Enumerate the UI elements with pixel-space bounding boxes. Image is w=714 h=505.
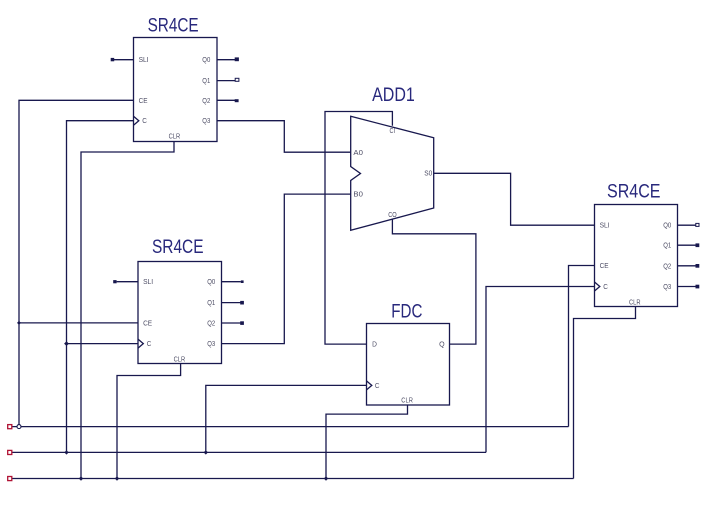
wire ADD1 S0 to right SR4CE SLI <box>434 173 595 225</box>
adder ADD1 symbol outline <box>351 116 434 230</box>
shift register U3 (right SR4CE) box <box>595 205 678 307</box>
U3 Q3 end square <box>696 285 700 289</box>
U3 Q1 output stub <box>678 244 696 246</box>
svg-text:CE: CE <box>139 98 148 105</box>
wire ADD1 CI to FDC D <box>325 112 392 345</box>
U1 Q0 output stub <box>217 59 235 61</box>
wire CLR net: IO3 horizontal run <box>12 478 574 480</box>
svg-text:CLR: CLR <box>401 398 413 405</box>
svg-text:Q1: Q1 <box>663 243 671 250</box>
svg-text:SR4CE: SR4CE <box>607 182 661 203</box>
svg-text:Q3: Q3 <box>663 284 671 291</box>
wire ADD1 CO to FDC Q <box>392 219 476 344</box>
U1 clock chevron <box>134 116 139 125</box>
svg-text:SR4CE: SR4CE <box>152 237 204 258</box>
U2 clock chevron <box>138 339 143 348</box>
svg-text:Q0: Q0 <box>202 57 210 64</box>
I/O terminal marker 3 <box>8 477 12 481</box>
svg-text:Q3: Q3 <box>207 341 215 348</box>
svg-text:CE: CE <box>143 321 152 328</box>
wire Q3 of bottom SR4CE to ADD1 B0 <box>222 194 351 344</box>
U1 Q0 end square (filled) <box>235 57 239 61</box>
svg-text:SLI: SLI <box>600 223 610 230</box>
U2 Q1 end square <box>240 301 244 305</box>
svg-text:C: C <box>142 118 147 125</box>
U2 Q0 output stub <box>222 281 241 283</box>
junction dot at CE-net branch to U2 <box>17 321 21 325</box>
U1 Q1 end square (open) <box>235 78 239 81</box>
svg-text:SLI: SLI <box>139 57 149 64</box>
U2 Q0 end square <box>241 280 244 283</box>
svg-text:D: D <box>372 342 377 349</box>
U3 Q0 end square (open) <box>696 223 699 226</box>
junction diamond at C-net branch to U2 <box>64 341 69 346</box>
U3 Q2 end square <box>696 264 700 268</box>
U2 SLI unconnected-end square <box>113 280 116 283</box>
junction dot C-net at IO2 wire x=205.8 <box>204 450 208 454</box>
U2 Q2 output stub <box>222 322 241 324</box>
shift register U1 (top-left SR4CE) box <box>134 38 218 142</box>
wire CLR net: riser to bottom SR4CE CLR <box>117 364 181 479</box>
U2 Q1 output stub <box>222 302 241 304</box>
wire C clock net: IO2 horizontal run <box>12 451 486 453</box>
svg-text:Q: Q <box>439 342 445 349</box>
U3 clock chevron <box>595 282 600 291</box>
svg-text:Q1: Q1 <box>202 78 210 85</box>
svg-text:CO: CO <box>388 212 397 219</box>
svg-text:SLI: SLI <box>143 279 153 286</box>
svg-text:C: C <box>603 284 608 291</box>
svg-text:CE: CE <box>600 263 609 270</box>
svg-text:Q2: Q2 <box>207 321 215 328</box>
svg-text:CLR: CLR <box>169 134 181 141</box>
junction dot C-net at IO2 wire x=66.5 <box>64 450 68 454</box>
svg-text:C: C <box>375 383 380 390</box>
svg-text:Q2: Q2 <box>202 98 210 105</box>
open circle junction on CE net at x=19 <box>17 425 21 429</box>
svg-text:FDC: FDC <box>391 301 422 322</box>
U3 Q2 output stub <box>678 265 696 267</box>
U2 Q2 end square <box>240 321 244 325</box>
wire CE net: IO1 horizontal run <box>12 426 569 428</box>
svg-text:CI: CI <box>390 128 396 135</box>
wire CLR net: riser to top SR4CE CLR <box>81 142 174 479</box>
svg-text:B0: B0 <box>353 192 363 199</box>
junction dot CLR-net at IO3 wire x=117 <box>115 476 119 480</box>
U1 Q2 output stub <box>217 99 235 101</box>
U1 SLI input stub <box>114 59 134 61</box>
U3 Q0 output stub <box>678 224 696 226</box>
wire C clock net: branch to bottom SR4CE C <box>67 343 139 345</box>
wire CE net: branch to bottom SR4CE CE <box>19 322 138 324</box>
svg-text:ADD1: ADD1 <box>372 85 415 106</box>
junction dot CLR-net at IO3 wire x=81 <box>79 476 83 480</box>
U3 Q1 end square <box>696 243 700 247</box>
I/O terminal marker 1 <box>8 425 12 429</box>
U2 SLI input stub <box>117 281 138 283</box>
svg-text:SR4CE: SR4CE <box>148 16 199 37</box>
U1 SLI unconnected-end square <box>111 58 115 61</box>
wire CLR net: riser to FDC CLR <box>326 405 408 479</box>
U3 Q3 output stub <box>678 286 696 288</box>
svg-text:C: C <box>147 341 152 348</box>
wire CE net: left vertical to top SR4CE CE <box>19 100 134 426</box>
U1 Q1 output stub <box>217 80 235 82</box>
I/O terminal marker 2 <box>8 450 12 454</box>
svg-text:A0: A0 <box>353 150 363 157</box>
svg-text:CLR: CLR <box>629 299 641 306</box>
svg-text:Q2: Q2 <box>663 263 671 270</box>
svg-text:Q0: Q0 <box>663 223 671 230</box>
wire C clock net: left vertical to top SR4CE C <box>67 121 134 453</box>
wire C clock net: riser to FDC C <box>206 385 367 452</box>
svg-text:CLR: CLR <box>174 357 186 364</box>
shift register U2 (bottom-left SR4CE) box <box>138 262 222 364</box>
flip-flop FDC box <box>367 324 450 406</box>
FDC clock chevron <box>367 381 372 390</box>
svg-text:S0: S0 <box>424 171 432 178</box>
junction dot CLR-net at IO3 wire x=326 <box>324 476 328 480</box>
wire Q3 of top SR4CE to ADD1 A0 <box>217 121 351 153</box>
svg-text:Q3: Q3 <box>202 118 210 125</box>
U1 Q2 end square (filled) <box>235 99 239 102</box>
wire CLR net: riser to right SR4CE CLR <box>574 307 636 479</box>
wire CE net: right riser to right SR4CE CE <box>569 266 595 427</box>
svg-text:Q1: Q1 <box>207 300 215 307</box>
wire C clock net: right riser to right SR4CE C <box>486 287 595 453</box>
svg-text:Q0: Q0 <box>207 279 215 286</box>
